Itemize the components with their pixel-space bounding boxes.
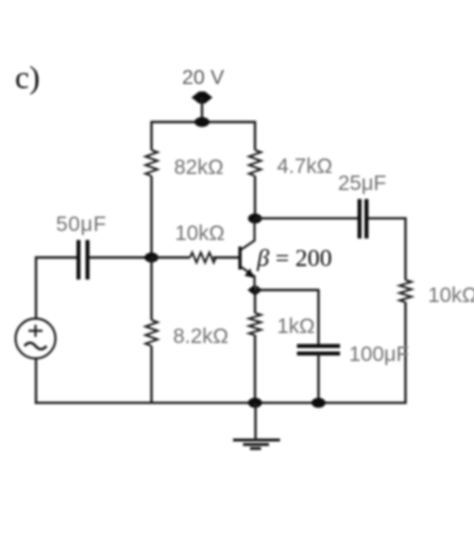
wire supply stub: [201, 97, 203, 122]
wire output (25uF right plate to load corner): [369, 218, 406, 280]
svg-text:50μF: 50μF: [56, 213, 107, 236]
svg-text:8.2kΩ: 8.2kΩ: [173, 325, 228, 348]
transistor Q1 base bar: [238, 247, 241, 270]
wire load branch lower (10k to bottom rail): [404, 302, 406, 404]
wire input left (source top corner to 50uF left plate): [36, 258, 77, 319]
ground bar 3: [250, 447, 261, 450]
svg-text:100μF: 100μF: [349, 343, 409, 366]
resistor R 8.2k zigzag: [146, 320, 158, 346]
resistor RB 10k horizontal zigzag: [190, 253, 216, 263]
junction top rail dot: [195, 117, 210, 127]
svg-text:82kΩ: 82kΩ: [174, 156, 224, 179]
junction collector node dot: [248, 214, 262, 224]
wire right branch upper (top rail to 4.7k): [254, 121, 256, 150]
wire collector branch (4.7k to collector node): [254, 176, 256, 219]
supply node terminal: [192, 92, 213, 104]
svg-text:β = 200: β = 200: [256, 245, 332, 272]
resistor R 82k zigzag: [146, 150, 158, 176]
resistor R 4.7k zigzag: [249, 150, 261, 176]
transistor Q1 emitter arrowhead: [245, 268, 254, 277]
wire input (50uF right plate to base node): [90, 256, 153, 258]
junction base node dot: [145, 253, 159, 263]
junction bottom rail bypass dot: [312, 398, 326, 408]
svg-text:1kΩ: 1kΩ: [277, 315, 315, 338]
junction bottom rail ground dot: [248, 398, 262, 408]
junction emitter node (double arrow marker): [248, 285, 255, 295]
wire emitter node to 1k: [254, 290, 256, 313]
wire left branch upper (top rail to 82k): [150, 121, 152, 150]
wire source bottom to rail: [35, 359, 37, 405]
ground bar 1: [233, 439, 280, 442]
source sine wave: [25, 343, 47, 349]
wire bottom rail: [35, 402, 407, 404]
wire 10k to transistor base: [213, 256, 239, 258]
resistor 8.2k upper wire (base node down): [150, 258, 152, 321]
wire base node to 10k resistor: [152, 256, 191, 258]
wire 1k to bottom rail: [254, 335, 256, 404]
svg-text:10kΩ: 10kΩ: [428, 284, 474, 307]
ground stem: [254, 403, 256, 440]
wire bypass branch upper (emitter wire to 100uF): [317, 290, 319, 346]
wire top rail: [151, 121, 257, 123]
wire 8.2k to bottom rail: [150, 346, 152, 404]
capacitor C 100uF plates: [297, 344, 340, 348]
svg-text:4.7kΩ: 4.7kΩ: [277, 155, 332, 178]
wire left branch middle (82k to base node): [150, 176, 152, 258]
svg-text:20 V: 20 V: [182, 66, 224, 89]
resistor RE 1k zigzag: [249, 313, 261, 335]
svg-text:10kΩ: 10kΩ: [175, 222, 225, 245]
capacitor C 25uF plates: [358, 199, 362, 239]
svg-text:c): c): [15, 59, 40, 95]
source Vs circle: [16, 319, 56, 359]
resistor RL 10k zigzag: [400, 280, 412, 302]
ground bar 2: [243, 443, 269, 446]
wire bypass branch lower (100uF to bottom rail): [317, 354, 319, 405]
transistor Q1 collector lead: [241, 219, 255, 250]
svg-text:25μF: 25μF: [338, 172, 386, 195]
wire emitter to bypass branch: [255, 289, 320, 291]
transistor Q1 emitter lead: [241, 267, 255, 291]
source plus sign: [29, 330, 43, 332]
capacitor C 50uF plates: [77, 240, 81, 280]
wire output (collector node to 25uF left plate): [255, 217, 358, 219]
